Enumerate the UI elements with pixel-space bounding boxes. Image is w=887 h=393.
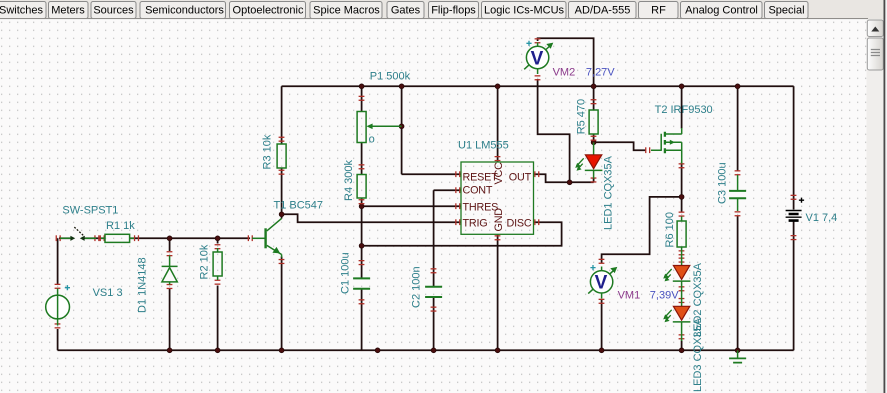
- svg-text:U1 LM555: U1 LM555: [458, 140, 509, 152]
- svg-text:o: o: [369, 134, 375, 146]
- node T1 collector / TRIG: [279, 212, 284, 217]
- svg-text:Gates: Gates: [391, 5, 421, 17]
- diode D1: [162, 256, 178, 285]
- wire wiper riser: [401, 86, 403, 174]
- svg-text:C3 100u: C3 100u: [717, 162, 729, 204]
- wire C2 bottom lead: [433, 297, 435, 350]
- svg-text:LED1 CQX35A: LED1 CQX35A: [603, 155, 615, 230]
- node wiper riser on VCC rail: [399, 84, 404, 89]
- svg-text:VS1 3: VS1 3: [93, 287, 123, 299]
- capacitor C3: [729, 175, 746, 211]
- node R5/LED1/gate: [591, 140, 596, 145]
- svg-text:7,39V: 7,39V: [650, 289, 679, 301]
- svg-text:D1 1N4148: D1 1N4148: [137, 257, 149, 313]
- wire VM2 to OUT node: [538, 79, 570, 182]
- node C3/ground on rail: [735, 348, 740, 353]
- svg-text:Flip-flops: Flip-flops: [431, 5, 476, 17]
- node R2 junction: [215, 236, 220, 241]
- node P1 wiper: [399, 124, 404, 129]
- wire gate net: [594, 142, 646, 150]
- svg-text:Sources: Sources: [93, 5, 134, 17]
- svg-text:R2 10k: R2 10k: [198, 244, 210, 279]
- svg-text:C2 100n: C2 100n: [411, 266, 423, 308]
- scrollbar up button: [867, 20, 883, 37]
- svg-text:OUT: OUT: [509, 172, 532, 184]
- op-amp U1 LM555 box: [461, 162, 534, 234]
- svg-text:R5 470: R5 470: [575, 99, 587, 134]
- svg-text:GND: GND: [493, 208, 505, 232]
- capacitor C1: [353, 278, 370, 288]
- wire battery right drop: [793, 86, 795, 350]
- wire OUT net: [534, 174, 594, 182]
- switch SW-SPST1: [60, 227, 96, 241]
- scrollbar thumb: [867, 38, 883, 70]
- svg-text:SW-SPST1: SW-SPST1: [62, 205, 118, 217]
- svg-text:VM2: VM2: [553, 67, 576, 79]
- wire U1 VCC up: [497, 86, 499, 162]
- node OUT / VM2: [567, 180, 572, 185]
- ground: [729, 350, 746, 362]
- node R2 on ground rail: [215, 348, 220, 353]
- svg-text:V: V: [595, 273, 608, 294]
- tab Meters: [49, 2, 89, 19]
- tab bar background: [0, 0, 887, 19]
- svg-text:R6 100: R6 100: [664, 212, 676, 247]
- wire T1 emitter down: [281, 257, 283, 351]
- node U1 GND on ground rail: [495, 348, 500, 353]
- tab bar bottom edge: [0, 18, 868, 19]
- voltmeter VM2: [524, 41, 553, 74]
- capacitor C2: [425, 287, 442, 297]
- tab Gates: [387, 2, 424, 19]
- node D1-R1 junction: [167, 236, 172, 241]
- svg-text:R3 10k: R3 10k: [261, 134, 273, 169]
- node T1 emitter on ground rail: [279, 348, 284, 353]
- node T2 drain on rail: [679, 84, 684, 89]
- tab Switches: [0, 2, 46, 19]
- wire VM2 top to rail: [538, 38, 594, 86]
- wire VCC top rail: [282, 85, 794, 87]
- wire P1 top lead: [361, 86, 363, 111]
- svg-text:TRIG: TRIG: [463, 217, 488, 229]
- LED3: [663, 306, 690, 341]
- wire source node to VM1: [602, 197, 682, 264]
- tab Flip-flops: [429, 2, 479, 19]
- svg-text:DISC: DISC: [507, 217, 532, 229]
- wire C1 leads: [361, 246, 363, 350]
- wire DISC net: [362, 222, 562, 246]
- resistor R6: [677, 217, 686, 257]
- pin connection tick marks (red): [55, 38, 797, 339]
- svg-text:VM1: VM1: [618, 289, 641, 301]
- svg-text:Meters: Meters: [51, 5, 85, 17]
- transistor T2 MOSFET: [651, 128, 682, 164]
- voltmeter VM1: [588, 265, 617, 299]
- svg-text:AD/DA-555: AD/DA-555: [575, 5, 631, 17]
- transistor T1: [252, 218, 282, 257]
- svg-text:Switches: Switches: [0, 5, 44, 17]
- wire CONT net: [434, 190, 461, 286]
- tab Semiconductors: [140, 2, 226, 19]
- scrollbar track: [867, 19, 885, 393]
- tab Logic ICs-MCUs: [482, 2, 567, 19]
- wire RESET net: [402, 173, 461, 175]
- svg-text:V: V: [531, 48, 544, 69]
- svg-text:R1 1k: R1 1k: [106, 220, 135, 232]
- svg-text:T1 BC547: T1 BC547: [274, 200, 324, 212]
- tab RF: [639, 2, 679, 19]
- svg-text:V1 7,4: V1 7,4: [806, 212, 838, 224]
- voltage source VS1: [46, 285, 70, 325]
- svg-text:Semiconductors: Semiconductors: [145, 5, 224, 17]
- node THRES / R4 bottom: [359, 204, 364, 209]
- wire U1 GND down: [497, 234, 499, 350]
- node T2 source / R6 / VM1: [679, 194, 684, 199]
- wire T2 source down: [681, 163, 683, 197]
- tab AD/DA-555: [569, 2, 637, 19]
- node U1 VCC on rail: [495, 84, 500, 89]
- window right edge: [884, 0, 886, 393]
- wire THRES node down: [361, 206, 363, 246]
- wire node to R6: [681, 197, 683, 212]
- svg-text:P1 500k: P1 500k: [370, 71, 411, 83]
- wire D1 branch: [169, 238, 171, 350]
- resistor R3: [277, 144, 286, 168]
- wire VS1 branch left: [57, 238, 59, 350]
- wire C3 top lead: [737, 86, 739, 170]
- node C1 on ground rail: [375, 348, 380, 353]
- wire THRES net: [362, 205, 461, 207]
- wire T2 drain to rail: [681, 86, 683, 128]
- LED2: [663, 256, 690, 306]
- resistor R1: [101, 234, 134, 242]
- svg-text:Optoelectronic: Optoelectronic: [233, 5, 304, 17]
- resistor R5: [589, 110, 598, 134]
- tab Special: [765, 2, 809, 19]
- node C3 on rail: [735, 84, 740, 89]
- svg-text:7,27V: 7,27V: [586, 67, 615, 79]
- wire LED3 bottom lead: [681, 341, 683, 351]
- wire R4 to THRES node: [361, 198, 363, 206]
- svg-text:Logic ICs-MCUs: Logic ICs-MCUs: [484, 5, 565, 17]
- wire R5 leads: [593, 86, 595, 142]
- battery V1: [786, 198, 805, 221]
- potentiometer P1: [357, 112, 402, 143]
- tab Spice Macros: [310, 2, 382, 19]
- wire C3 bottom lead: [737, 216, 739, 350]
- tab Sources: [91, 2, 136, 19]
- LED1: [575, 142, 602, 178]
- svg-text:VCC: VCC: [493, 162, 505, 185]
- tab Analog Control: [681, 2, 763, 19]
- svg-text:R4 300k: R4 300k: [343, 160, 355, 201]
- resistor R2: [213, 248, 222, 280]
- svg-text:LED3 CQX35A: LED3 CQX35A: [692, 317, 704, 392]
- node C2 on ground rail: [431, 348, 436, 353]
- node LED3 on ground rail: [679, 348, 684, 353]
- wire P1-R4 link: [361, 143, 363, 175]
- wire VM1 bottom lead: [601, 299, 603, 350]
- wire switch-R1-base row: [59, 237, 250, 239]
- node D1 on ground rail: [167, 348, 172, 353]
- wire R2 branch: [217, 238, 219, 350]
- tab Optoelectronic: [230, 2, 306, 19]
- wire ground bottom rail: [58, 349, 794, 351]
- svg-text:C1 100u: C1 100u: [339, 252, 351, 294]
- node P1 top on VCC rail: [359, 84, 364, 89]
- wire R3 branch: [281, 86, 283, 218]
- node R5/VM2 on rail: [591, 84, 596, 89]
- svg-text:Analog Control: Analog Control: [685, 5, 758, 17]
- svg-text:T2 IRF9530: T2 IRF9530: [655, 104, 713, 116]
- svg-text:Spice Macros: Spice Macros: [313, 5, 380, 17]
- wire TRIG net: [282, 214, 461, 222]
- svg-text:RF: RF: [651, 5, 666, 17]
- node DISC / C1 top: [359, 243, 364, 248]
- svg-text:Special: Special: [768, 5, 804, 17]
- node VM1 on ground rail: [599, 348, 604, 353]
- resistor R4: [357, 175, 366, 199]
- svg-text:CONT: CONT: [463, 185, 493, 197]
